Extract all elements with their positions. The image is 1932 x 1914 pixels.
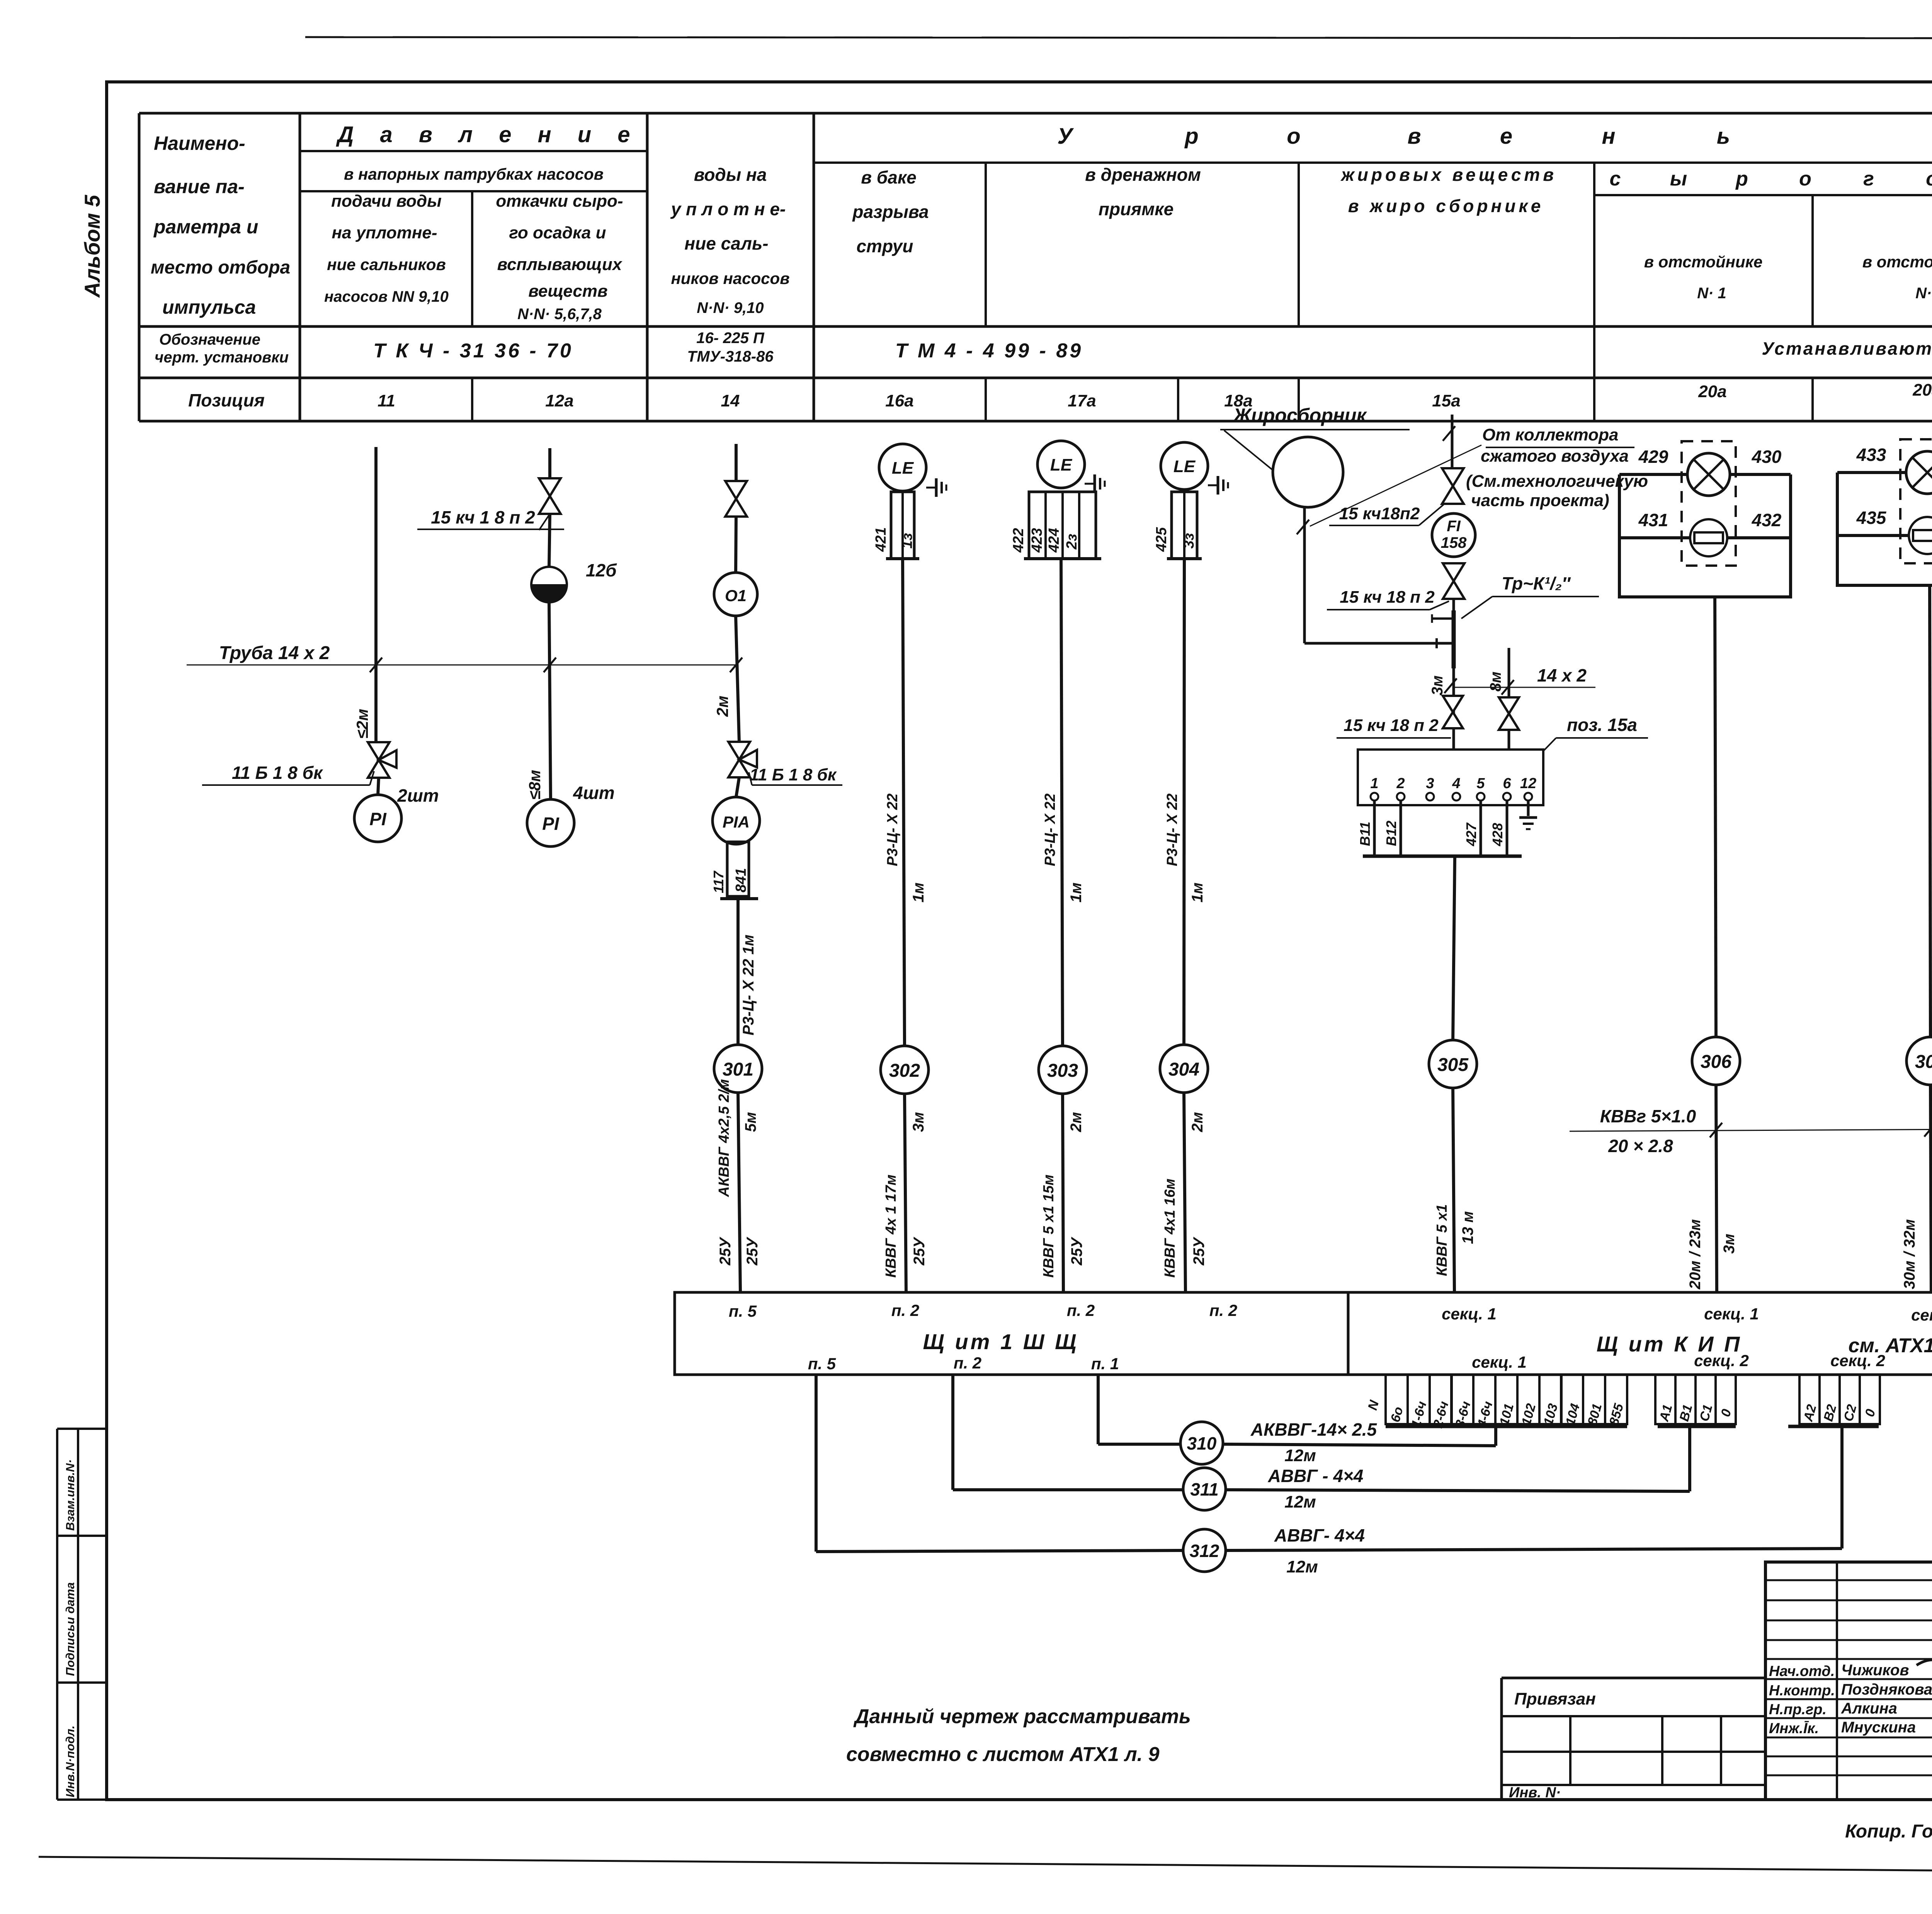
wire п.5 to circle 312 <box>816 1550 1183 1552</box>
svg-text:секц. 2: секц. 2 <box>1830 1351 1885 1370</box>
level element LE (pos.16а) <box>879 444 926 491</box>
wire 429-430 <box>1619 473 1791 476</box>
svg-text:14 х 2: 14 х 2 <box>1537 665 1587 685</box>
svg-text:2: 2 <box>1396 775 1405 792</box>
svg-text:подачи воды: подачи воды <box>331 192 442 211</box>
svg-text:PI: PI <box>542 814 560 834</box>
level element LE (pos.18а) <box>1161 442 1208 490</box>
svg-text:422: 422 <box>1010 528 1027 553</box>
cable marker 425/3з <box>1172 492 1197 559</box>
cable circle 307 <box>1906 1037 1932 1085</box>
svg-text:В11: В11 <box>1357 822 1373 846</box>
terminal circles поз.15а <box>1371 793 1378 801</box>
wire п.2 down <box>951 1375 954 1490</box>
svg-text:Р3-Ц- Х 22: Р3-Ц- Х 22 <box>1164 794 1180 866</box>
valve 11Б18бк line-14 (three-way) <box>728 742 750 777</box>
wire 305 to panel <box>1453 1088 1454 1292</box>
svg-text:20 × 2.8: 20 × 2.8 <box>1608 1136 1673 1156</box>
wire group1 (отстойник 1) down <box>1715 597 1716 1037</box>
svg-text:12м: 12м <box>1286 1557 1318 1576</box>
signal lamp HL 429/430 <box>1687 453 1730 496</box>
svg-text:КВВГ 5 х1 15м: КВВГ 5 х1 15м <box>1041 1175 1057 1278</box>
wire 302 to panel <box>905 1094 906 1292</box>
wire line-11 to gauge <box>378 778 379 795</box>
svg-text:ников насосов: ников насосов <box>671 269 789 287</box>
svg-text:1м: 1м <box>1189 882 1206 903</box>
svg-text:веществ: веществ <box>528 282 607 301</box>
svg-text:304: 304 <box>1168 1059 1199 1080</box>
svg-text:≤8м: ≤8м <box>526 770 544 800</box>
svg-text:в: в <box>1407 124 1421 149</box>
svg-text:в напорных патрубках насосов: в напорных патрубках насосов <box>344 165 604 183</box>
wire В11 <box>1373 801 1376 856</box>
svg-text:о: о <box>1799 168 1811 190</box>
wire bus to circle 305 <box>1453 856 1455 1041</box>
svg-text:ы: ы <box>1670 168 1687 190</box>
svg-text:20а: 20а <box>1698 382 1726 401</box>
svg-text:В12: В12 <box>1383 821 1399 846</box>
svg-text:LE: LE <box>892 459 914 478</box>
valve 11Б18бк line-11 (three-way) <box>368 742 389 778</box>
svg-text:Позиция: Позиция <box>188 390 265 410</box>
svg-text:312: 312 <box>1190 1541 1219 1561</box>
svg-text:LE: LE <box>1173 457 1196 476</box>
svg-text:≤2м: ≤2м <box>353 709 371 739</box>
slash 306 <box>1710 1123 1722 1137</box>
wire 310 to секц.1 bus <box>1223 1444 1496 1446</box>
leader От коллектора to drop <box>1310 445 1481 526</box>
svg-text:301: 301 <box>723 1059 753 1080</box>
slash line-14 <box>730 658 742 672</box>
svg-text:30м / 32м: 30м / 32м <box>1901 1219 1918 1289</box>
wire from Жиросборник down <box>1303 507 1306 643</box>
svg-text:Т М 4 - 4 99 - 89: Т М 4 - 4 99 - 89 <box>895 340 1083 362</box>
svg-text:КВВг 5×1.0: КВВг 5×1.0 <box>1600 1106 1696 1126</box>
svg-text:N· 1: N· 1 <box>1697 285 1726 302</box>
svg-text:N· 2: N· 2 <box>1915 285 1932 302</box>
slash 8м wire <box>1502 680 1514 695</box>
svg-text:вание па-: вание па- <box>154 176 245 197</box>
slash line-12а <box>544 658 556 672</box>
svg-text:место отбора: место отбора <box>151 257 290 278</box>
svg-text:Подписьи дата: Подписьи дата <box>63 1582 77 1676</box>
cable marker 117/841 <box>727 842 749 896</box>
svg-text:3м: 3м <box>1721 1234 1738 1254</box>
svg-text:КВВГ 5 х1: КВВГ 5 х1 <box>1434 1204 1450 1276</box>
svg-text:п. 5: п. 5 <box>808 1355 836 1373</box>
svg-text:р: р <box>1184 124 1198 149</box>
svg-text:427: 427 <box>1463 822 1479 847</box>
svg-text:117: 117 <box>711 870 726 893</box>
wire 306 to panel <box>1716 1085 1717 1292</box>
slash FI-branch top <box>1443 426 1455 441</box>
svg-text:3м: 3м <box>1429 675 1446 695</box>
svg-text:5м: 5м <box>742 1112 759 1132</box>
slash line-11 <box>370 658 382 672</box>
svg-text:Т К Ч - 31 36 - 70: Т К Ч - 31 36 - 70 <box>373 340 573 362</box>
svg-text:158: 158 <box>1441 534 1467 551</box>
svg-text:16а: 16а <box>885 391 913 410</box>
svg-text:PI: PI <box>369 809 387 829</box>
svg-text:2м: 2м <box>1068 1112 1085 1132</box>
paper bottom edge <box>39 1857 1932 1875</box>
wire line-12а upper <box>548 448 551 478</box>
svg-text:О1: О1 <box>725 586 747 605</box>
bus А2В2С2 <box>1788 1425 1879 1428</box>
pressure gauge PI (2шт) <box>354 795 401 842</box>
svg-text:1м: 1м <box>1068 882 1085 903</box>
svg-text:424: 424 <box>1046 528 1062 553</box>
resistor/bell 431/432 <box>1690 519 1727 556</box>
svg-text:ь: ь <box>1717 124 1730 149</box>
svg-text:Наимено-: Наимено- <box>154 133 245 154</box>
separating vessel 12Б (half filled) <box>531 567 567 602</box>
svg-text:в дренажном: в дренажном <box>1085 165 1201 185</box>
slash on Жиросборник drop <box>1297 520 1309 534</box>
svg-text:в баке: в баке <box>861 167 917 187</box>
svg-text:Р3-Ц- Х 22 1м: Р3-Ц- Х 22 1м <box>740 935 757 1035</box>
wire 421 to circle 302 <box>903 559 905 1046</box>
ground LE-17а <box>1085 483 1095 485</box>
svg-text:306: 306 <box>1701 1052 1731 1072</box>
ground поз.15а <box>1519 816 1537 819</box>
svg-text:приямке: приямке <box>1099 199 1173 219</box>
svg-text:431: 431 <box>1638 510 1668 530</box>
wire п.1 down <box>1097 1375 1100 1444</box>
svg-text:13 м: 13 м <box>1459 1211 1476 1244</box>
cable circle 312 <box>1183 1529 1226 1572</box>
svg-text:430: 430 <box>1752 447 1782 467</box>
svg-text:п. 2: п. 2 <box>954 1354 981 1372</box>
wire line-11 upper <box>374 447 378 743</box>
lamp box group2 (отстойник 2) <box>1837 473 1932 585</box>
svg-text:АКВВГ 4х2,5 2/м: АКВВГ 4х2,5 2/м <box>716 1079 732 1197</box>
cable circle 304 <box>1160 1045 1208 1093</box>
svg-text:2м: 2м <box>1189 1112 1206 1132</box>
wire 312 to А2В2С2 bus <box>1226 1549 1842 1550</box>
wire Жиросборник to T-fitting <box>1304 642 1454 645</box>
svg-text:432: 432 <box>1752 510 1782 530</box>
svg-text:4: 4 <box>1452 775 1460 792</box>
svg-text:1м: 1м <box>910 882 927 903</box>
svg-text:423: 423 <box>1029 528 1045 553</box>
cable marker 422 423 424 2з <box>1029 492 1096 559</box>
wire 431-432 <box>1619 536 1791 539</box>
svg-text:Р3-Ц- Х 22: Р3-Ц- Х 22 <box>884 794 901 866</box>
svg-text:КВВГ 4х1 16м: КВВГ 4х1 16м <box>1162 1179 1178 1278</box>
stub wire 8м <box>1508 648 1510 750</box>
lamp box group1 (отстойник 1) <box>1619 474 1791 597</box>
svg-text:Щ ит 1 Ш Щ: Щ ит 1 Ш Щ <box>923 1329 1079 1354</box>
wire terminal 12 to ground <box>1527 801 1530 816</box>
svg-text:секц. 1: секц. 1 <box>1442 1305 1497 1323</box>
svg-text:в отстойнике: в отстойнике <box>1644 253 1763 271</box>
cable circle 303 <box>1039 1046 1087 1094</box>
svg-text:ТМУ-318-86: ТМУ-318-86 <box>687 348 774 365</box>
svg-text:Устанавливаются по механ: Устанавливаются по механической части пр… <box>1762 338 1932 359</box>
svg-text:17а: 17а <box>1068 391 1096 410</box>
cable circle 311 <box>1183 1468 1226 1510</box>
svg-text:15 кч 18 п 2: 15 кч 18 п 2 <box>1340 588 1435 607</box>
parameter table grid <box>139 112 1932 115</box>
wire п.5 down <box>815 1375 818 1552</box>
svg-text:429: 429 <box>1638 447 1668 467</box>
slash 3м wire <box>1444 678 1457 693</box>
svg-text:305: 305 <box>1437 1055 1469 1075</box>
svg-text:Обозначение: Обозначение <box>159 331 260 348</box>
svg-text:1: 1 <box>1370 775 1378 792</box>
valve 15кч18п2 line-14 <box>725 481 747 517</box>
svg-text:433: 433 <box>1856 445 1886 465</box>
svg-text:п. 2: п. 2 <box>1209 1301 1237 1319</box>
svg-text:черт. установки: черт. установки <box>155 349 289 366</box>
svg-text:совместно с листом АТХ1: совместно с листом АТХ1 л. 9 <box>846 1743 1160 1766</box>
svg-text:25У: 25У <box>717 1237 734 1266</box>
svg-text:2з: 2з <box>1064 534 1080 550</box>
svg-text:14: 14 <box>721 391 740 410</box>
svg-text:Жиросборник: Жиросборник <box>1232 405 1367 426</box>
terminal strip А2 В2 С2 0 <box>1799 1375 1820 1424</box>
svg-text:Инв. N·: Инв. N· <box>1509 1785 1561 1801</box>
wire 422 to circle 303 <box>1061 559 1063 1046</box>
wire п.2 to circle 311 <box>953 1488 1183 1491</box>
wire line-14 middle <box>736 616 739 742</box>
svg-text:435: 435 <box>1856 508 1887 528</box>
svg-text:Н.пр.гр.: Н.пр.гр. <box>1769 1702 1827 1718</box>
ground LE-16а <box>926 487 936 489</box>
svg-text:3: 3 <box>1426 775 1434 792</box>
svg-text:11 Б 1 8 бк: 11 Б 1 8 бк <box>750 765 837 784</box>
svg-text:Д а в л е н и е: Д а в л е н и е <box>335 122 640 147</box>
valve 8м stub <box>1499 697 1519 730</box>
svg-text:поз. 15а: поз. 15а <box>1567 715 1637 735</box>
svg-text:Алкина: Алкина <box>1841 1700 1897 1717</box>
svg-text:п. 2: п. 2 <box>1067 1301 1095 1319</box>
cable circle 306 <box>1692 1037 1740 1085</box>
resistor/bell 435/436 <box>1909 517 1932 554</box>
svg-text:жировых веществ: жировых веществ <box>1340 165 1557 185</box>
svg-text:N·N· 5,6,7,8: N·N· 5,6,7,8 <box>517 306 602 323</box>
terminal strip А1 В1 С1 0 <box>1655 1375 1675 1424</box>
svg-text:Тр~К¹/₂″: Тр~К¹/₂″ <box>1502 573 1571 593</box>
svg-text:425: 425 <box>1153 527 1170 552</box>
svg-text:12м: 12м <box>1284 1492 1316 1511</box>
svg-text:АВВГ- 4×4: АВВГ- 4×4 <box>1274 1525 1365 1545</box>
svg-text:у п л о т н е-: у п л о т н е- <box>670 199 786 219</box>
valve 15кч18п2 line-12а <box>539 478 561 514</box>
pressure gauge PIA <box>713 797 760 844</box>
svg-text:428: 428 <box>1490 823 1505 847</box>
svg-text:15 кч 1 8 п 2: 15 кч 1 8 п 2 <box>431 507 535 527</box>
wire line-14 to O1 <box>736 517 736 573</box>
signal lamp HL 433/434 <box>1906 451 1932 494</box>
T-fitting Тр-К1/2 <box>1432 617 1453 620</box>
panel Щит 1ШЩ <box>675 1292 1348 1375</box>
svg-text:часть проекта): часть проекта) <box>1471 491 1609 510</box>
svg-text:п. 5: п. 5 <box>729 1302 757 1320</box>
svg-text:15 кч18п2: 15 кч18п2 <box>1339 504 1420 523</box>
svg-text:на уплотне-: на уплотне- <box>332 223 437 242</box>
svg-text:воды на: воды на <box>694 165 767 185</box>
svg-text:в отстойнике: в отстойнике <box>1862 253 1932 271</box>
svg-text:насосов NN 9,10: насосов NN 9,10 <box>324 288 449 305</box>
svg-text:12: 12 <box>1520 775 1536 792</box>
cable circle 305 <box>1429 1040 1477 1088</box>
svg-text:15а: 15а <box>1432 391 1460 410</box>
svg-text:АКВВГ-14× 2.5: АКВВГ-14× 2.5 <box>1250 1419 1378 1440</box>
wire line-12а lower <box>549 602 551 799</box>
wire 303 to panel <box>1063 1094 1063 1292</box>
tubing line 14x2 <box>187 665 736 666</box>
dashed enclosure group1 (отстойник 1) <box>1682 441 1736 566</box>
wire FI-branch top <box>1451 415 1454 469</box>
svg-text:в жиро сборнике: в жиро сборнике <box>1348 196 1544 216</box>
svg-text:Н.контр.: Н.контр. <box>1769 1683 1835 1699</box>
svg-text:841: 841 <box>733 868 749 892</box>
wire line-14 upper <box>735 444 738 481</box>
svg-text:КВВГ 4х 1 17м: КВВГ 4х 1 17м <box>883 1175 899 1278</box>
vessel Жиросборник <box>1273 437 1343 507</box>
wire 307 to panel <box>1930 1085 1931 1292</box>
junction box поз.15а <box>1358 750 1543 805</box>
svg-text:302: 302 <box>889 1061 920 1081</box>
svg-text:303: 303 <box>1047 1061 1078 1081</box>
level element LE (pos.17а) <box>1037 441 1085 488</box>
svg-text:25У: 25У <box>1068 1237 1085 1266</box>
wire 304 to panel <box>1184 1093 1185 1292</box>
svg-text:1з: 1з <box>899 533 915 549</box>
cable circle 302 <box>881 1046 929 1094</box>
svg-text:2шт: 2шт <box>397 785 439 806</box>
title block frame <box>1765 1562 1932 1800</box>
valve 15кч18п2 FI upper <box>1442 468 1464 504</box>
svg-text:Копир. Гольденбаум: Копир. Гольденбаум <box>1845 1821 1932 1842</box>
wire 428 <box>1506 801 1509 856</box>
wire group2 (отстойник 2) down <box>1930 585 1930 1037</box>
svg-text:4шт: 4шт <box>573 783 614 803</box>
slash 307 <box>1924 1122 1932 1137</box>
wire В12 <box>1400 801 1402 856</box>
wire 433-434 <box>1837 471 1932 474</box>
svg-text:Инв.N·подл.: Инв.N·подл. <box>63 1725 77 1797</box>
svg-text:FI: FI <box>1447 518 1461 535</box>
svg-text:N·N· 9,10: N·N· 9,10 <box>697 299 764 316</box>
svg-text:е: е <box>1500 124 1512 149</box>
svg-text:PIA: PIA <box>723 813 750 831</box>
wire п.1 to circle 310 <box>1098 1443 1180 1446</box>
svg-text:разрыва: разрыва <box>852 202 929 222</box>
valve 15кч18п2 3м wire <box>1443 696 1463 728</box>
svg-text:секц. 1: секц. 1 <box>1704 1305 1759 1323</box>
valve 15кч18п2 FI lower <box>1443 563 1464 599</box>
svg-text:п. 1: п. 1 <box>1091 1355 1119 1373</box>
svg-text:секц. 2: секц. 2 <box>1694 1351 1749 1370</box>
cable marker 421/1з <box>891 492 914 559</box>
svg-text:откачки сыро-: откачки сыро- <box>496 192 623 211</box>
bus under поз.15а wires <box>1363 855 1522 858</box>
left margin stamp cells <box>56 1429 58 1800</box>
svg-text:о: о <box>1926 168 1932 190</box>
svg-text:Привязан: Привязан <box>1514 1690 1596 1708</box>
svg-text:25У: 25У <box>1190 1237 1207 1266</box>
svg-text:Альбом 5: Альбом 5 <box>80 195 104 298</box>
pressure gauge PI (4шт) <box>527 799 574 847</box>
svg-text:11: 11 <box>378 391 395 410</box>
wire line-12а to vessel <box>549 514 550 567</box>
svg-text:От коллектора: От коллектора <box>1482 425 1618 444</box>
svg-text:3м: 3м <box>910 1112 927 1132</box>
svg-text:421: 421 <box>873 527 889 552</box>
svg-text:г: г <box>1863 168 1874 190</box>
svg-text:р: р <box>1735 168 1748 190</box>
svg-text:всплывающих: всплывающих <box>497 255 622 274</box>
svg-text:струи: струи <box>856 236 913 256</box>
flow indicator FI 158 <box>1432 513 1475 557</box>
svg-text:3з: 3з <box>1181 533 1197 549</box>
wire 311 to А1В1С1 bus <box>1226 1490 1690 1491</box>
svg-text:ние саль-: ние саль- <box>684 233 768 253</box>
svg-text:Данный чертеж рассматрив: Данный чертеж рассматривать <box>853 1705 1191 1728</box>
wire 427 <box>1480 801 1482 856</box>
svg-text:8м: 8м <box>1487 671 1504 692</box>
svg-text:импульса: импульса <box>162 296 256 318</box>
svg-text:12б: 12б <box>586 560 617 580</box>
svg-text:12м: 12м <box>1284 1446 1316 1465</box>
svg-text:25У: 25У <box>911 1237 928 1266</box>
wire line-14 to gauge <box>736 777 739 797</box>
svg-text:Чижиков: Чижиков <box>1841 1662 1909 1679</box>
svg-text:секц. 1: секц. 1 <box>1911 1306 1932 1324</box>
wire 435-436 <box>1837 534 1932 537</box>
svg-text:20а: 20а <box>1912 381 1932 399</box>
wire 425 to circle 304 <box>1184 559 1184 1045</box>
svg-text:с: с <box>1610 168 1621 190</box>
dashed enclosure group2 (отстойник 2) <box>1900 439 1932 563</box>
ground LE-18а <box>1208 484 1218 486</box>
cable circle 301 <box>714 1045 762 1093</box>
svg-text:Инж.Īк.: Инж.Īк. <box>1769 1720 1819 1737</box>
svg-text:311: 311 <box>1190 1479 1218 1499</box>
svg-text:5: 5 <box>1476 775 1485 792</box>
svg-text:секц. 1: секц. 1 <box>1472 1353 1527 1371</box>
svg-text:У: У <box>1057 124 1074 149</box>
svg-text:2м: 2м <box>713 696 731 717</box>
svg-text:Позднякова: Позднякова <box>1841 1681 1932 1698</box>
svg-text:20м / 23м: 20м / 23м <box>1687 1219 1704 1290</box>
paper top edge <box>305 37 1932 39</box>
svg-text:6: 6 <box>1503 775 1511 792</box>
svg-text:11 Б 1 8 бк: 11 Б 1 8 бк <box>232 763 323 783</box>
svg-text:16- 225 П: 16- 225 П <box>696 330 765 347</box>
stamp Привязан <box>1502 1677 1765 1679</box>
svg-text:о: о <box>1287 124 1300 149</box>
svg-text:п. 2: п. 2 <box>891 1301 919 1319</box>
svg-text:Мнускина: Мнускина <box>1841 1719 1916 1736</box>
svg-text:25У: 25У <box>744 1237 761 1266</box>
svg-text:Взам.инв.N·: Взам.инв.N· <box>63 1459 77 1531</box>
svg-text:310: 310 <box>1187 1433 1217 1453</box>
svg-text:Труба 14 х 2: Труба 14 х 2 <box>219 643 330 663</box>
svg-text:12а: 12а <box>545 391 573 410</box>
svg-text:го осадка и: го осадка и <box>509 223 606 242</box>
bus секц.1 <box>1386 1425 1627 1428</box>
svg-text:Нач.отд.: Нач.отд. <box>1769 1663 1835 1679</box>
wire 301 to panel <box>738 1093 740 1292</box>
svg-text:15 кч 18 п 2: 15 кч 18 п 2 <box>1344 716 1439 735</box>
wire 841 to circle 301 <box>736 899 740 1045</box>
svg-text:Р3-Ц- Х 22: Р3-Ц- Х 22 <box>1042 794 1058 866</box>
svg-text:н: н <box>1602 124 1615 149</box>
